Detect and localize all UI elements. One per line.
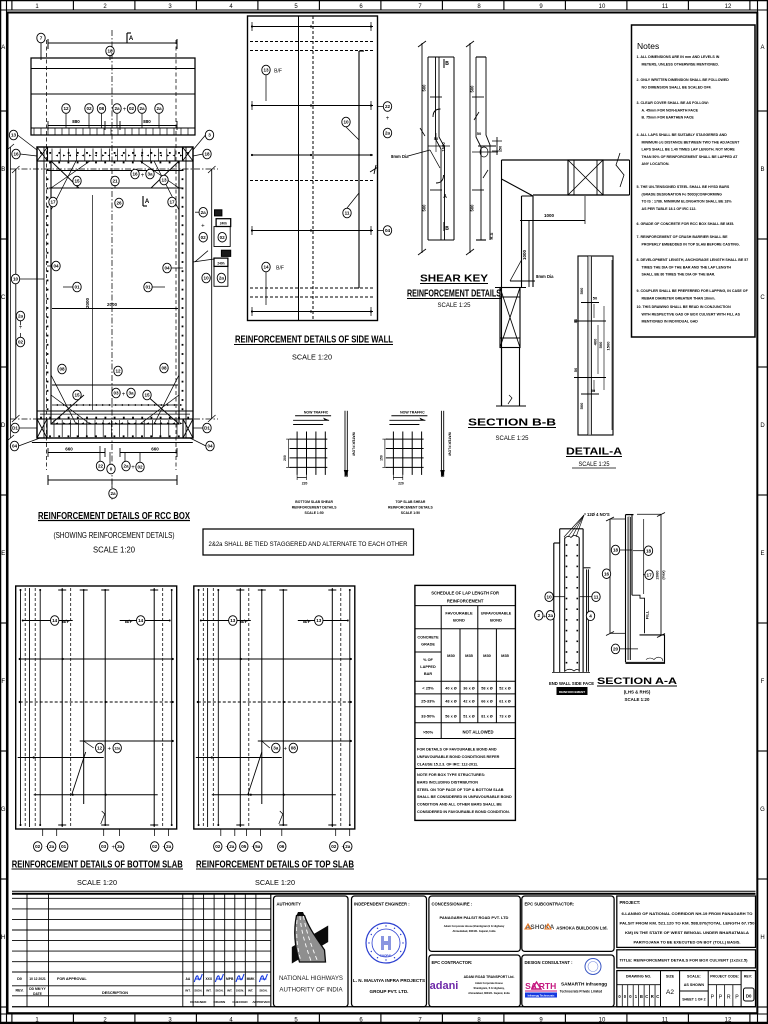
- shear key bar 2 outline: [472, 57, 498, 240]
- title: reinforcement details of side wall: [234, 334, 393, 362]
- bottom slab horizontal bars: [18, 616, 174, 796]
- title: reinforcement details of bottom slab: [12, 860, 184, 888]
- svg-text:17: 17: [647, 572, 653, 577]
- svg-text:500: 500: [470, 85, 475, 93]
- svg-text:51 x Ø: 51 x Ø: [463, 715, 474, 719]
- svg-text:1. ALL DIMENSIONS ARE IN mm A: 1. ALL DIMENSIONS ARE IN mm AND LEVELS I…: [637, 55, 720, 59]
- svg-text:02: 02: [215, 844, 221, 849]
- horizontal centerline upper: [10, 168, 218, 170]
- end wall 12dia label: [564, 512, 610, 537]
- svg-text:500: 500: [422, 84, 427, 92]
- svg-text:D0: D0: [17, 977, 22, 981]
- svg-text:2a: 2a: [166, 844, 172, 849]
- top slab horizontal bars: [196, 616, 352, 796]
- svg-text:B: B: [445, 226, 449, 232]
- svg-text:2. ONLY WRITTEN DIMENSION SHA: 2. ONLY WRITTEN DIMENSION SHALL BE FOLLO…: [637, 78, 730, 82]
- svg-text:11: 11: [662, 4, 669, 10]
- svg-text:4. ALL LAPS SHALL BE SUITABLY: 4. ALL LAPS SHALL BE SUITABLY STAGGERED …: [637, 133, 728, 137]
- title: section A-A: [597, 676, 677, 702]
- svg-text:BHOPAL: BHOPAL: [380, 954, 393, 958]
- 8mm dia label shear key: [391, 128, 440, 168]
- svg-text:SCALE 1:25: SCALE 1:25: [496, 435, 529, 442]
- svg-text:FOR APPROVAL: FOR APPROVAL: [57, 977, 87, 981]
- 8mm dia leader on side wall: [370, 165, 378, 174]
- svg-text:DESIGN CONSULTANT :: DESIGN CONSULTANT :: [525, 960, 573, 965]
- svg-text:880: 880: [72, 119, 80, 124]
- figure: top slab shear reinforcement diagram: [379, 411, 451, 516]
- overall bottom dimension line: [48, 475, 177, 498]
- svg-text:14: 14: [263, 265, 269, 270]
- svg-text:58 x Ø: 58 x Ø: [481, 687, 492, 691]
- svg-text:FILL: FILL: [645, 610, 650, 619]
- svg-text:R.S: R.S: [489, 232, 494, 239]
- svg-text:16: 16: [604, 571, 610, 576]
- svg-text:02: 02: [137, 465, 143, 470]
- title strip: [617, 950, 756, 968]
- svg-text:PALSIT FROM KM. 521.120 TO KM.: PALSIT FROM KM. 521.120 TO KM. 588.870(T…: [620, 922, 755, 926]
- svg-text:50: 50: [591, 388, 596, 393]
- svg-text:< 25%: < 25%: [422, 686, 434, 691]
- svg-text:REINFORCEMENT: REINFORCEMENT: [447, 599, 484, 604]
- svg-text:6. GRADE OF CONCRETE FOR RCC: 6. GRADE OF CONCRETE FOR RCC BOX SHALL B…: [637, 222, 735, 226]
- svg-text:11: 11: [662, 1018, 669, 1024]
- svg-text:08: 08: [291, 746, 297, 751]
- svg-text:10: 10: [599, 1018, 606, 1024]
- svg-text:AUTHORITY OF INDIA: AUTHORITY OF INDIA: [279, 987, 343, 994]
- blue signatures: [194, 974, 202, 982]
- right margin circle labels: [190, 130, 214, 451]
- svg-text:36 x Ø: 36 x Ø: [463, 687, 474, 691]
- svg-text:2a: 2a: [201, 210, 207, 215]
- svg-text:2: 2: [538, 613, 541, 618]
- shear key bar 1 dimension line: [418, 41, 427, 255]
- svg-text:WITH RESPECTIVE GAD OF BOX CUL: WITH RESPECTIVE GAD OF BOX CULVERT WITH …: [642, 312, 741, 316]
- detail-A tick dims: [573, 260, 612, 430]
- svg-text:01: 01: [145, 285, 151, 290]
- drawing number block: [617, 971, 756, 1007]
- svg-text:500: 500: [579, 402, 584, 409]
- figure: reinforcement details of RCC box: [7, 30, 231, 555]
- svg-text:2&2a SHALL BE TIED STAGGERED A: 2&2a SHALL BE TIED STAGGERED AND ALTERNA…: [209, 541, 408, 548]
- inner horizontal rebar lines: [49, 188, 183, 385]
- svg-text:15: 15: [144, 393, 150, 398]
- svg-text:INT.: INT.: [185, 989, 191, 993]
- section A-A wall outline: [626, 515, 665, 664]
- figure: reinforcement details of side wall: [234, 16, 393, 362]
- independent engineer box with LNM seal: [352, 896, 427, 1007]
- section B-B 1000 dims: [520, 196, 585, 287]
- svg-text:E: E: [1, 551, 5, 557]
- top slab bottom circle labels: [214, 842, 352, 852]
- svg-text:8mm Dia: 8mm Dia: [391, 154, 409, 159]
- svg-text:INT.: INT.: [248, 989, 254, 993]
- svg-text:+: +: [123, 107, 127, 113]
- EPC contractor box with adani logo: [429, 955, 520, 1007]
- rebar dots along box perimeter: [40, 152, 189, 437]
- svg-text:FAVOURABLE: FAVOURABLE: [445, 611, 473, 616]
- inner circle labels second row: [49, 196, 176, 208]
- svg-text:F: F: [761, 679, 765, 685]
- svg-text:02: 02: [86, 106, 92, 111]
- svg-text:13: 13: [230, 618, 236, 623]
- svg-text:AS SHOWN: AS SHOWN: [684, 983, 705, 987]
- svg-text:SHEET 1 OF 2: SHEET 1 OF 2: [682, 998, 705, 1002]
- svg-text:GRADE: GRADE: [421, 643, 435, 647]
- svg-text:4: 4: [589, 613, 592, 618]
- svg-text:42 x Ø: 42 x Ø: [463, 700, 474, 704]
- svg-text:01: 01: [74, 285, 80, 290]
- svg-text:11: 11: [594, 594, 599, 599]
- svg-text:INT.: INT.: [206, 989, 212, 993]
- right margin 2a+02 labels: [195, 207, 207, 242]
- svg-text:REBAR DIAMETER GREATER THAN 16: REBAR DIAMETER GREATER THAN 16mm.: [642, 296, 716, 300]
- 8mm dia leader section B-B: [510, 260, 554, 281]
- bottom slab mid circle pair: [96, 743, 104, 753]
- figure: detail-A: [566, 256, 622, 468]
- horizontal centerline lower: [10, 418, 218, 420]
- svg-text:13: 13: [316, 618, 322, 623]
- 880 dimension labels: [48, 119, 177, 130]
- note box: 2 and 2a tie note: [203, 529, 414, 555]
- svg-text:15: 15: [74, 179, 80, 184]
- svg-text:15: 15: [74, 393, 80, 398]
- bottom circle labels row: [96, 461, 144, 474]
- svg-text:21: 21: [112, 179, 118, 184]
- figure: reinforcement details of top slab: [194, 586, 355, 851]
- end wall outer bars: [552, 529, 591, 673]
- svg-text:11: 11: [345, 211, 350, 216]
- top corner shear key blocks with X: [37, 147, 193, 161]
- svg-text:B: B: [640, 994, 643, 999]
- svg-text:2a: 2a: [110, 491, 116, 496]
- svg-text:13: 13: [161, 178, 167, 183]
- svg-text:B/F: B/F: [240, 619, 248, 624]
- svg-text:02: 02: [201, 235, 207, 240]
- svg-text:+: +: [284, 747, 288, 753]
- svg-text:220: 220: [398, 482, 404, 486]
- svg-text:LAPS SHALL BE 1.40 TIMES LAP L: LAPS SHALL BE 1.40 TIMES LAP LENGTH. NOT…: [642, 148, 736, 152]
- section B-B vertical wall: [502, 179, 534, 406]
- svg-text:04: 04: [385, 228, 391, 233]
- svg-text:NOW TRAFFIC: NOW TRAFFIC: [304, 411, 329, 415]
- svg-text:SCALE 1:20: SCALE 1:20: [625, 697, 650, 702]
- svg-text:AUTHORITY: AUTHORITY: [277, 902, 302, 907]
- svg-text:0: 0: [110, 467, 113, 472]
- svg-text:SIZE: SIZE: [666, 975, 675, 979]
- svg-text:END WALL SIDE FACE: END WALL SIDE FACE: [549, 681, 594, 686]
- svg-text:66 x Ø: 66 x Ø: [481, 700, 492, 704]
- svg-text:18: 18: [107, 49, 113, 54]
- svg-text:73 x Ø: 73 x Ø: [499, 715, 510, 719]
- svg-text:REINFORCEMENT DETAILS: REINFORCEMENT DETAILS: [388, 506, 434, 510]
- end wall circle labels: [535, 592, 601, 621]
- svg-text:REINFORCEMENT: REINFORCEMENT: [559, 690, 585, 694]
- svg-text:G: G: [1, 807, 6, 813]
- svg-text:13: 13: [11, 133, 17, 138]
- section B-B hatched block on wall: [495, 288, 526, 348]
- side vertical dimension lines of box: [7, 144, 216, 441]
- svg-text:PROJECT:: PROJECT:: [620, 900, 641, 905]
- figure: bottom slab shear reinforcement diagram: [283, 411, 355, 516]
- top slab outer rectangle: [194, 586, 355, 829]
- svg-text:A: A: [443, 194, 447, 200]
- svg-text:08: 08: [161, 366, 167, 371]
- figure: section B-B: [468, 153, 630, 442]
- svg-text:B. 75mm FOR EARTHEN FACE: B. 75mm FOR EARTHEN FACE: [642, 116, 695, 120]
- leader lines bottom slab circles: [43, 829, 169, 836]
- svg-text:2000: 2000: [85, 297, 90, 308]
- svg-text:THAN 50% OF REINFORCEMENT SHAL: THAN 50% OF REINFORCEMENT SHALL BE LAPPE…: [642, 155, 739, 159]
- svg-text:25-33%: 25-33%: [421, 699, 435, 704]
- svg-text:8. DEVELOPMENT LENGTH, ANCHOR: 8. DEVELOPMENT LENGTH, ANCHORAGE LENGTH …: [637, 258, 749, 262]
- svg-text:12Ø 4 NO'S: 12Ø 4 NO'S: [587, 512, 610, 517]
- svg-text:3a: 3a: [147, 172, 153, 177]
- svg-text:DATE: DATE: [33, 992, 43, 996]
- project box: [617, 896, 756, 947]
- svg-text:2a: 2a: [548, 613, 554, 618]
- section B-B hatched block on top band: [568, 160, 603, 195]
- svg-text:10: 10: [13, 277, 19, 282]
- authority box with NHAI logo: [274, 896, 349, 1007]
- svg-text:H: H: [1, 935, 5, 941]
- svg-text:240h: 240h: [217, 261, 224, 265]
- side wall dashed rebar lines: [250, 42, 375, 298]
- svg-text:REV.: REV.: [15, 989, 23, 993]
- svg-text:13: 13: [263, 68, 269, 73]
- svg-text:B/F: B/F: [303, 619, 311, 624]
- svg-text:20: 20: [613, 647, 619, 652]
- svg-text:Ahmedabad, 382421. Gujarat, In: Ahmedabad, 382421. Gujarat, India: [468, 992, 510, 995]
- svg-text:400: 400: [593, 338, 598, 345]
- svg-text:SCALE 1:25: SCALE 1:25: [579, 462, 611, 468]
- svg-text:DRAWN: DRAWN: [214, 1000, 226, 1004]
- side wall circle labels: [262, 65, 392, 305]
- top slab band ticks and arrows: [48, 149, 184, 171]
- svg-text:CONCRETE: CONCRETE: [417, 636, 439, 640]
- svg-text:TIMES THE DIA OF THE BAR AND T: TIMES THE DIA OF THE BAR AND THE LAP LEN…: [642, 265, 732, 269]
- svg-text:10: 10: [599, 4, 606, 10]
- svg-text:04: 04: [53, 264, 59, 269]
- svg-text:10: 10: [343, 120, 349, 125]
- svg-text:8mm Dia: 8mm Dia: [536, 274, 554, 279]
- detail-A inner bar lines: [588, 256, 592, 435]
- svg-text:SCALE 1:20: SCALE 1:20: [255, 878, 295, 887]
- svg-text:12: 12: [725, 1018, 732, 1024]
- figure: reinforcement details of bottom slab: [16, 586, 177, 851]
- right callout box 2: [193, 250, 231, 286]
- top slab break mark: [279, 811, 283, 824]
- svg-text:12: 12: [97, 746, 103, 751]
- svg-text:PANAGARH PALSIT ROAD PVT. LTD: PANAGARH PALSIT ROAD PVT. LTD: [440, 915, 509, 920]
- svg-text:16: 16: [132, 172, 138, 177]
- svg-text:BOTTOM SLAB SHEAR: BOTTOM SLAB SHEAR: [295, 500, 333, 504]
- svg-text:A: A: [145, 199, 150, 205]
- svg-text:10: 10: [547, 594, 553, 599]
- svg-text:02: 02: [152, 844, 158, 849]
- svg-text:MPB: MPB: [226, 977, 234, 981]
- svg-text:2a: 2a: [123, 464, 129, 469]
- svg-text:SECTION B-B: SECTION B-B: [468, 418, 556, 429]
- svg-text:BOND: BOND: [490, 618, 502, 623]
- svg-text:2a: 2a: [139, 106, 145, 111]
- svg-text:6-LANING OF NATIONAL CORRIDOR: 6-LANING OF NATIONAL CORRIDOR NH-19 FROM…: [622, 912, 753, 916]
- svg-text:12: 12: [115, 369, 121, 374]
- svg-text:+: +: [122, 392, 126, 398]
- svg-text:CONDITION AND ALL OTHER BARS S: CONDITION AND ALL OTHER BARS SHALL BE: [417, 803, 502, 807]
- svg-text:CONCESSIONAIRE :: CONCESSIONAIRE :: [432, 902, 473, 907]
- svg-text:1500: 1500: [441, 142, 446, 152]
- end wall caption: [549, 681, 594, 695]
- svg-text:(SHOWING REINFORCEMENT DETAILS: (SHOWING REINFORCEMENT DETAILS): [54, 530, 175, 540]
- svg-text:22: 22: [385, 104, 391, 109]
- top dimension line with section A marker: [37, 33, 177, 60]
- svg-text:TO IS : 1786. MINIMUM ELONGATI: TO IS : 1786. MINIMUM ELONGATION SHALL B…: [642, 200, 733, 204]
- svg-text:48 x Ø: 48 x Ø: [445, 700, 456, 704]
- svg-text:3a: 3a: [273, 746, 279, 751]
- svg-text:B/F: B/F: [125, 619, 133, 624]
- svg-text:NOTE FOR BOX TYPE STRUCTURES:: NOTE FOR BOX TYPE STRUCTURES:: [417, 773, 485, 777]
- svg-text:METERS, UNLESS OTHERWISE MENTI: METERS, UNLESS OTHERWISE MENTIONED.: [642, 62, 719, 66]
- svg-text:PARIYOJANA TO BE EXECUTED ON B: PARIYOJANA TO BE EXECUTED ON BOT (TOLL) …: [634, 941, 741, 945]
- svg-text:EPC SUBCONTRACTOR:: EPC SUBCONTRACTOR:: [525, 902, 575, 907]
- svg-text:SIGN.: SIGN.: [194, 989, 202, 993]
- vertical centerline of box: [111, 30, 113, 500]
- side wall vertical lines: [299, 16, 365, 320]
- svg-text:B: B: [445, 61, 449, 67]
- svg-text:DESIGNED: DESIGNED: [190, 1000, 207, 1004]
- shear key bar 1 outline: [428, 57, 454, 240]
- svg-text:D: D: [760, 423, 765, 429]
- svg-text:P: P: [711, 995, 715, 1001]
- 2000 dimension vertical: [85, 195, 93, 410]
- svg-text:660: 660: [65, 447, 73, 452]
- mid wall circle labels: [47, 261, 183, 292]
- svg-text:18: 18: [646, 548, 652, 553]
- svg-text:SHALL BE 80 TIMES THE DIA OF T: SHALL BE 80 TIMES THE DIA OF THE BAR.: [642, 273, 716, 277]
- svg-text:B/F: B/F: [274, 69, 282, 75]
- svg-text:(LHS & RHS): (LHS & RHS): [624, 690, 651, 695]
- haunch diagonals and leader lines inside box: [51, 161, 179, 424]
- svg-text:03: 03: [101, 844, 107, 849]
- svg-text:220: 220: [302, 482, 308, 486]
- svg-text:1000: 1000: [522, 249, 527, 260]
- svg-text:NOT ALLOWED: NOT ALLOWED: [462, 730, 493, 735]
- vertical section lines A-A dashed: [46, 40, 48, 470]
- svg-text:B/F: B/F: [276, 266, 284, 272]
- svg-text:(max): (max): [661, 570, 665, 579]
- svg-text:2a: 2a: [49, 844, 55, 849]
- svg-text:P: P: [735, 995, 739, 1001]
- svg-text:R: R: [727, 995, 731, 1001]
- svg-text:P: P: [719, 995, 723, 1001]
- svg-text:500: 500: [470, 204, 475, 212]
- svg-text:SCALE 1:25: SCALE 1:25: [438, 302, 471, 309]
- svg-text:9. COUPLER SHALL BE PREFERRED: 9. COUPLER SHALL BE PREFERRED FOR LAPPIN…: [637, 289, 749, 293]
- svg-text:AS PER TABLE 18.1 OF IRC 112.: AS PER TABLE 18.1 OF IRC 112.: [642, 207, 697, 211]
- revision table: [12, 894, 756, 1007]
- notes panel: [632, 25, 756, 337]
- svg-text:FOR DETAILS OF FAVOURABLE BOND: FOR DETAILS OF FAVOURABLE BOND AND: [417, 748, 497, 752]
- svg-text:3: 3: [208, 133, 211, 138]
- svg-text:BAR: BAR: [424, 672, 432, 676]
- svg-text:1500: 1500: [606, 341, 611, 351]
- detail-A outer rectangle: [578, 256, 613, 435]
- svg-text:14: 14: [138, 618, 144, 623]
- svg-text:52 x Ø: 52 x Ø: [499, 687, 510, 691]
- svg-text:L. N. MALVIYA INFRA PROJECTS: L. N. MALVIYA INFRA PROJECTS: [353, 978, 425, 983]
- svg-text:02: 02: [220, 235, 226, 240]
- svg-text:33-50%: 33-50%: [421, 714, 435, 719]
- svg-text:2000: 2000: [654, 570, 659, 580]
- svg-text:R: R: [651, 994, 654, 999]
- svg-text:02: 02: [129, 106, 135, 111]
- svg-text:500: 500: [598, 341, 603, 348]
- svg-text:18: 18: [613, 548, 619, 553]
- svg-text:AA: AA: [186, 977, 191, 981]
- svg-text:UNFAVOURABLE: UNFAVOURABLE: [481, 612, 512, 616]
- svg-text:SAMARTH Infraengg: SAMARTH Infraengg: [561, 982, 607, 987]
- svg-text:C: C: [760, 295, 765, 301]
- bottom slab outer rectangle: [16, 586, 177, 829]
- svg-text:+: +: [131, 465, 135, 471]
- svg-text:SCALE 1:50: SCALE 1:50: [304, 511, 323, 515]
- svg-text:XXX: XXX: [205, 977, 212, 981]
- svg-text:SECTION A-A: SECTION A-A: [597, 676, 677, 687]
- svg-text:04: 04: [164, 266, 170, 271]
- svg-text:2000: 2000: [107, 302, 118, 307]
- svg-text:D: D: [1, 423, 6, 429]
- svg-text:7. REINFORCEMENT OF CRASH BAR: 7. REINFORCEMENT OF CRASH BARRIER SHALL …: [637, 235, 729, 239]
- svg-text:26: 26: [116, 201, 122, 206]
- top slab vertical bars: [198, 588, 351, 827]
- svg-text:EPC CONTRACTOR:: EPC CONTRACTOR:: [432, 960, 473, 965]
- svg-text:Adani Corporate House: Adani Corporate House: [475, 982, 504, 985]
- svg-text:E: E: [760, 551, 764, 557]
- svg-text:SCALE 1:20: SCALE 1:20: [77, 878, 117, 887]
- svg-text:08: 08: [99, 106, 105, 111]
- section B-B top slab band: [502, 160, 630, 196]
- svg-text:D1: D1: [12, 426, 18, 431]
- bottom slab vertical ticks: [53, 420, 55, 437]
- svg-text:01: 01: [61, 844, 67, 849]
- svg-text:D0: D0: [746, 994, 752, 999]
- svg-text:1000: 1000: [544, 213, 555, 218]
- svg-text:A. 45mm FOR NON-EARTH FACE: A. 45mm FOR NON-EARTH FACE: [642, 108, 699, 112]
- bottom dimension 660 lines: [32, 443, 193, 469]
- svg-text:SCALE 1:20: SCALE 1:20: [93, 546, 136, 555]
- svg-text:A: A: [760, 45, 764, 51]
- svg-text:C: C: [656, 994, 659, 999]
- svg-text:ADANI ROAD TRANSPORT Ltd.: ADANI ROAD TRANSPORT Ltd.: [464, 975, 515, 979]
- svg-text:NOW TRAFFIC: NOW TRAFFIC: [400, 411, 425, 415]
- svg-text:C: C: [1, 295, 6, 301]
- svg-text:NATIONAL HIGHWAYS: NATIONAL HIGHWAYS: [279, 975, 343, 982]
- svg-text:REINFORCEMENT DETAILS OF SIDE: REINFORCEMENT DETAILS OF SIDE WALL: [235, 334, 393, 346]
- svg-text:02: 02: [331, 844, 337, 849]
- svg-text:2a: 2a: [156, 106, 162, 111]
- svg-text:A: A: [1, 45, 5, 51]
- svg-text:14: 14: [52, 618, 58, 623]
- svg-text:+: +: [19, 325, 23, 331]
- svg-text:Notes: Notes: [637, 41, 659, 51]
- svg-text:04: 04: [207, 444, 213, 449]
- svg-text:C: C: [645, 994, 648, 999]
- svg-text:56 x Ø: 56 x Ø: [445, 715, 456, 719]
- svg-text:5. THE UN-TENSIONED STEEL SHA: 5. THE UN-TENSIONED STEEL SHALL BE HYSD …: [637, 185, 730, 189]
- svg-text:WATER FLOW: WATER FLOW: [351, 432, 355, 456]
- side wall horizontal rebar lines: [251, 22, 373, 316]
- title: detail-A: [566, 447, 622, 469]
